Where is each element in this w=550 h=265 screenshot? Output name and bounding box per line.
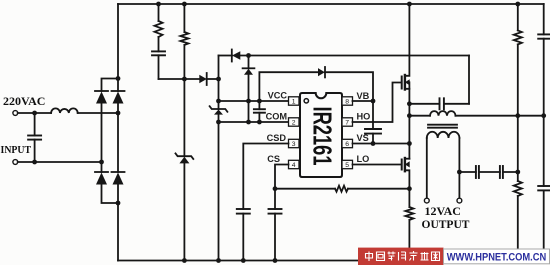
wire secondary left lead [426,138,428,198]
wire LO pin to gate [353,164,401,166]
svg-text:220VAC: 220VAC [3,94,45,108]
diode D6 bridge top-right [112,91,125,104]
watermark url box [444,249,550,264]
wire charge pump return [468,56,470,104]
svg-text:WWW.HPNET.COM.CN: WWW.HPNET.COM.CN [447,252,547,264]
svg-text:VB: VB [357,91,370,101]
capacitor C8 CSD [237,209,250,261]
op-amp U1 IR2161 body [300,93,342,177]
wire charge-pump line right [240,55,469,57]
wire VCC line [219,100,289,102]
diode D3 [243,68,255,75]
diode D8 bridge bottom-right [112,172,125,185]
zener Z1 [176,153,194,163]
wire charge diode to COM [248,75,250,122]
pin 5 box [342,160,353,169]
terminal input neutral [13,160,18,165]
wire primary return [456,115,544,117]
diode D1 [199,73,206,85]
pin 7 box [342,118,353,127]
capacitor C3 VCC bypass [254,101,265,122]
terminal output right [457,198,462,203]
wire VCC to bootstrap diode [259,72,318,101]
capacitor C1 input filter [28,113,41,162]
resistor R1 [155,4,163,37]
wire input top to inductor [18,112,51,114]
svg-text:INPUT: INPUT [1,144,32,156]
wire right column mid [543,39,545,186]
capacitor C2 [152,37,165,79]
wire midpoint to blocking cap [409,103,439,105]
transformer T1 secondary [427,132,460,138]
resistor R2 [180,4,188,79]
wire bridge right column top [117,79,119,92]
diode D7 bridge bottom-left [95,172,108,185]
pin 6 box [342,139,353,148]
capacitor C10 snubber top [538,4,549,39]
wire bridge right column mid [117,104,119,173]
zener Z2 [210,106,228,114]
svg-text:6: 6 [345,141,349,148]
pin 2 box [289,118,300,127]
wire top positive rail [118,3,544,5]
wire VS pin [353,143,410,145]
transistor Q1 high-side MOSFET [402,4,410,104]
wire node A horizontal [159,78,200,80]
diode D4 bootstrap [318,67,325,77]
inductor L1 [51,108,78,113]
capacitor C9 CS [269,209,282,261]
capacitor C4 bootstrap [365,129,381,144]
resistor R4 load [514,181,522,261]
wire charge-pump line left [219,55,233,57]
watermark red band [358,248,444,265]
pin 1 box [289,97,300,106]
watermark chinese glyphs [366,251,440,261]
wire output cap line right [503,171,518,173]
diode D5 bridge top-left [95,91,108,104]
wire bootstrap diode to VB [325,72,373,101]
svg-text:CS: CS [267,154,280,164]
wire CS node to cap [274,189,276,209]
svg-text:COM: COM [266,112,288,122]
wire output cap line left [459,171,476,173]
wire midpoint to primary [409,115,430,117]
wire HO pin to gate [353,83,401,123]
wire D1 to node B [207,78,219,80]
capacitor C7 [500,166,503,178]
pin 4 box [289,160,300,169]
wire CSD pin to cap [243,144,288,210]
svg-text:3: 3 [292,141,296,148]
diode D2 [232,50,241,62]
svg-text:4: 4 [292,162,296,169]
capacitor C11 load [538,186,549,261]
wire output cap line mid [479,171,500,173]
wire CS pin to node [275,165,289,189]
svg-text:IR2161: IR2161 [307,107,337,166]
wire bridge left column mid [101,104,103,173]
pin 1 marker dot [304,99,308,103]
wire inductor to bridge [78,112,118,114]
capacitor C5 charge pump [440,98,470,109]
wire node B column [218,56,220,110]
resistor R5 current sense [405,207,413,261]
svg-text:CSD: CSD [267,133,287,143]
capacitor C6 [476,166,479,178]
resistor R6 CS [335,186,348,192]
resistor R3 snubber top [514,4,522,44]
terminal input live [13,111,18,116]
wire bridge left bottom corner [102,185,119,204]
transformer T1 primary [430,111,456,116]
wire bottom ground rail [118,260,550,262]
wire source to sense resistor [408,189,410,207]
wire charge diode column [248,56,250,69]
svg-text:OUTPUT: OUTPUT [422,219,470,231]
svg-text:8: 8 [345,99,349,106]
wire node B column lower [218,115,220,261]
svg-text:VS: VS [357,133,369,143]
transformer T1 core [428,125,457,128]
wire COM line [219,121,289,123]
svg-text:12VAC: 12VAC [425,204,461,218]
wire VB column to cap [372,101,374,129]
svg-text:HO: HO [357,112,371,122]
svg-text:5: 5 [345,162,349,169]
wire half-bridge midpoint [408,104,410,159]
wire VB pin [353,100,374,102]
svg-text:LO: LO [357,154,370,164]
wire bridge negative drop [117,185,119,261]
wire bridge top link [102,79,119,92]
svg-text:2: 2 [292,120,296,127]
wire zener column upper [183,79,185,156]
wire snubber column mid [517,44,519,181]
wire secondary right lead [458,138,460,198]
svg-text:7: 7 [345,120,349,127]
wire input bottom [18,161,102,163]
transistor Q2 low-side MOSFET [402,158,410,189]
svg-text:VCC: VCC [268,91,288,101]
pin 3 box [289,139,300,148]
wire CS tap left [275,188,335,190]
pin 8 box [342,97,353,106]
terminal output left [424,198,429,203]
wire zener column lower [183,163,185,260]
wire CS tap right [348,188,409,190]
svg-text:1: 1 [292,99,296,106]
wire rail left drop to bridge [117,4,119,79]
